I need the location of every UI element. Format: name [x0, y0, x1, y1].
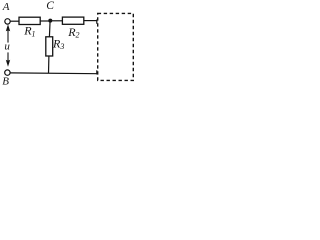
terminal B: [5, 70, 10, 75]
resistor R1: [19, 17, 40, 24]
terminal A: [5, 19, 10, 24]
svg-text:R1: R1: [23, 24, 35, 39]
voltage u arrow up: [6, 24, 10, 42]
svg-text:B: B: [2, 76, 9, 88]
resistor R3: [46, 37, 53, 56]
wire R1 to node C: [40, 20, 50, 22]
wire C to R2: [50, 20, 62, 22]
dashed network box: [98, 13, 134, 80]
svg-text:R2: R2: [67, 25, 79, 40]
wire tick at dashed box bottom terminal: [96, 70, 98, 74]
wire C down to R3: [48, 21, 51, 38]
bottom wire B to dashed box: [10, 72, 97, 75]
voltage u arrow down: [6, 52, 10, 66]
svg-text:C: C: [46, 0, 54, 12]
wire A to R1: [10, 20, 19, 22]
wire R2 to dashed box: [84, 20, 98, 22]
wire R3 to bottom rail: [48, 56, 50, 74]
resistor R2: [62, 17, 83, 24]
wire tick at dashed box top terminal: [96, 20, 98, 24]
svg-text:u: u: [4, 40, 10, 52]
node C junction dot: [48, 19, 52, 23]
svg-text:A: A: [2, 1, 10, 13]
svg-text:R3: R3: [52, 37, 64, 52]
